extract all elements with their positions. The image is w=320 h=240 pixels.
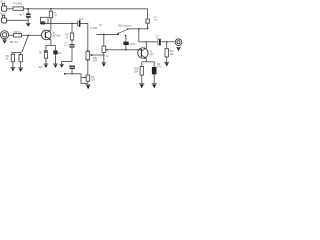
wire P1 body down (87, 60, 89, 75)
svg-text:22k: 22k (91, 79, 96, 82)
svg-text:10u: 10u (57, 52, 62, 55)
node dot A (27, 8, 29, 10)
ground under J4 (176, 47, 180, 51)
svg-text:SW bypass: SW bypass (118, 25, 132, 28)
wire to switch (97, 33, 119, 35)
ground under R7 (44, 64, 49, 68)
wire J1 to R1 (7, 8, 13, 10)
resistor R5 (12, 53, 14, 55)
node dot E (71, 23, 73, 25)
wire C6 down (71, 69, 73, 74)
wire Q1 emitter (50, 40, 52, 46)
wire R9 bottom (147, 23, 149, 29)
input jack J2 (1, 15, 6, 23)
svg-text:4u7: 4u7 (79, 18, 84, 21)
pot P1 (86, 50, 94, 61)
ground under P3 (102, 63, 107, 67)
capacitor C7 (123, 42, 128, 45)
node dot F (64, 73, 66, 75)
resistor R6 (20, 53, 22, 55)
ground under R11 (164, 62, 169, 66)
wire R7 ground (45, 58, 47, 64)
svg-text:BC549: BC549 (53, 35, 61, 38)
mic jack J3 (0, 31, 8, 39)
wire C1 down (27, 18, 29, 24)
wire base bus (108, 49, 141, 51)
wire Q1 collector (50, 23, 52, 30)
wire C8 ground (153, 74, 155, 83)
ground under C8 (152, 84, 157, 89)
switch SW (117, 28, 129, 36)
svg-text:4u7F: 4u7F (130, 43, 136, 46)
wire bottom bus (65, 73, 81, 75)
capacitor C8 (153, 62, 155, 67)
wire J2 to node (6, 19, 28, 21)
wire Q2 emitter (145, 58, 147, 61)
ground stub left (60, 64, 64, 67)
wire mid bus (48, 22, 77, 24)
node dot H (125, 49, 127, 51)
svg-text:10u: 10u (156, 38, 160, 40)
capacitor C9 (157, 39, 159, 45)
node dot J (146, 41, 147, 42)
node dot B (50, 8, 52, 10)
wire cap to jack (161, 41, 176, 43)
wire output (139, 41, 157, 43)
resistor R4 (50, 9, 52, 11)
resistor R7 (44, 53, 47, 59)
wire contact down (125, 36, 127, 42)
ground under R10 (139, 84, 144, 89)
input jack J1 (2, 4, 7, 12)
svg-text:to SW: to SW (90, 27, 98, 30)
transistor Q2 (138, 48, 148, 59)
ground under R5 (11, 68, 16, 72)
svg-text:47u: 47u (157, 66, 162, 69)
svg-text:LIN: LIN (93, 59, 97, 62)
ground under C4 (53, 64, 58, 68)
wire throw to node (128, 28, 147, 30)
svg-text:4u7: 4u7 (38, 66, 43, 69)
svg-text:IN 2: IN 2 (0, 13, 5, 16)
wire emitter node 2 (142, 61, 154, 63)
resistor R9 (146, 19, 149, 23)
series capacitor C2 (76, 21, 78, 27)
wire P1 wiper (94, 54, 104, 56)
svg-text:MIC IN: MIC IN (10, 41, 18, 44)
transistor Q1 (42, 30, 52, 40)
node dot I (147, 27, 149, 29)
wire C2 right (80, 23, 87, 51)
wire Q2 collector (145, 42, 147, 48)
wire bias top (11, 52, 21, 54)
node dot C (28, 35, 30, 37)
resistor R2 (14, 34, 22, 37)
capacitor C4 (55, 45, 57, 50)
svg-text:4u7: 4u7 (19, 13, 24, 16)
ground under C1 (26, 23, 31, 27)
wire J3 to R2 (9, 34, 14, 36)
resistor R1 (13, 7, 23, 10)
resistor R8 (71, 23, 73, 33)
wire R5 ground (12, 62, 14, 68)
node dot L (71, 73, 73, 75)
wire feed down (138, 29, 140, 42)
ground under R6 (18, 68, 23, 72)
resistor R11 (166, 42, 168, 49)
svg-text:R1 47k: R1 47k (14, 1, 23, 5)
node dot D (50, 23, 52, 25)
wire P3 body down (103, 52, 105, 62)
capacitor C5 (69, 44, 74, 47)
wire down to C1 (27, 9, 29, 14)
wire R9 top (147, 9, 149, 19)
wire R8 down (71, 40, 73, 44)
wire R2 to Q1 (22, 34, 42, 36)
wire top rail (23, 8, 147, 10)
node dot K (166, 41, 168, 43)
wire R11 ground (166, 57, 168, 62)
wire lower node (62, 61, 72, 63)
box SW1 (40, 17, 48, 23)
capacitor C3 (45, 45, 47, 50)
ground under mic (2, 40, 7, 44)
svg-text:10k: 10k (170, 53, 175, 56)
wire R6 ground (20, 62, 22, 68)
node dot G (103, 54, 105, 56)
svg-text:547: 547 (149, 53, 154, 56)
wire R10 ground (141, 75, 143, 84)
svg-text:R2 1k: R2 1k (14, 30, 22, 34)
wire emitter node (46, 44, 56, 46)
wire C5 down (71, 48, 73, 62)
output jack J4 (175, 39, 182, 46)
capacitor C1 (26, 14, 31, 18)
ground under P2 (86, 85, 91, 89)
wire bias diagonal (21, 35, 28, 52)
svg-text:330: 330 (134, 70, 139, 73)
resistor R10 (141, 62, 143, 67)
wire R4 down (50, 18, 52, 24)
wire C7 to base (125, 45, 127, 50)
svg-text:IN 1: IN 1 (0, 0, 5, 3)
pot P2 (81, 74, 90, 84)
pot P3 (102, 34, 108, 53)
capacitor C6 (69, 66, 75, 69)
wire C4 ground (55, 54, 57, 64)
wire mic ground (4, 39, 6, 40)
